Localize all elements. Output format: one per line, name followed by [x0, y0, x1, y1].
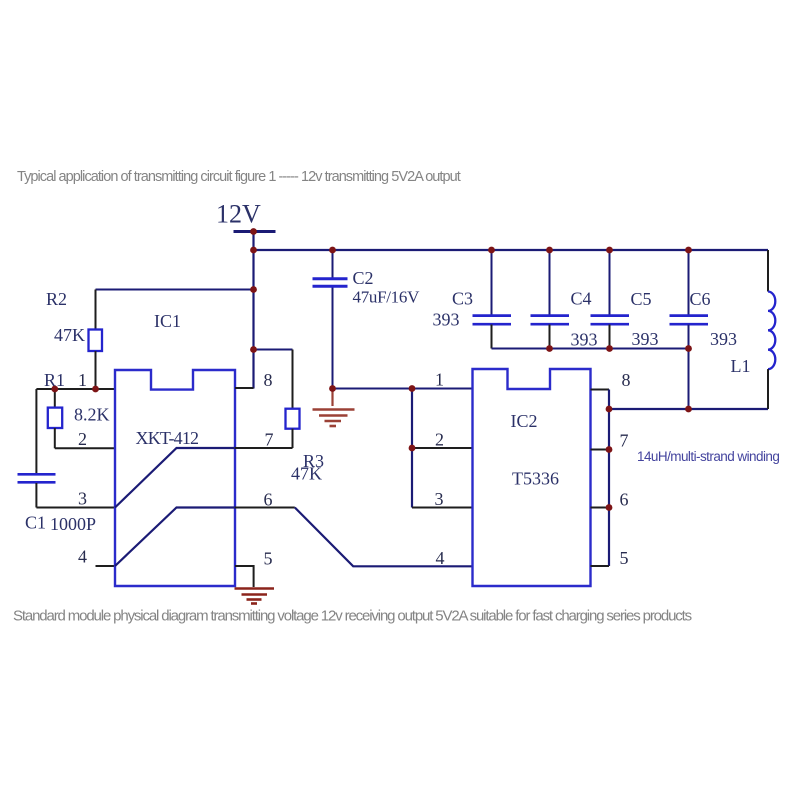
capacitor C1	[18, 473, 56, 476]
svg-text:1000P: 1000P	[50, 514, 96, 534]
wire L1 bottom	[609, 408, 768, 410]
svg-text:8.2K: 8.2K	[74, 405, 110, 425]
ground (IC1 pin5)	[235, 589, 275, 604]
wire IC2 pin7	[591, 449, 610, 451]
svg-text:393: 393	[710, 329, 737, 349]
wire R2 top lead	[95, 290, 97, 331]
node 12V bar	[250, 228, 257, 235]
node rail corner	[250, 247, 257, 254]
wire IC2 pin2	[412, 447, 473, 449]
wire L1 top lead	[767, 250, 769, 292]
node C5 bottom	[606, 345, 613, 352]
wire IC1 pin5	[235, 566, 254, 587]
wire R3 bottom lead	[292, 429, 294, 448]
wire diagonal pin6 IC1 to pin4 IC2	[295, 508, 473, 567]
node pin1 IC1	[92, 386, 99, 393]
svg-text:8: 8	[622, 370, 631, 390]
node C3 top	[488, 247, 495, 254]
wire R2 bottom lead	[95, 351, 97, 389]
wire IC1 pin6	[235, 507, 295, 509]
node C6 bottom	[685, 345, 692, 352]
svg-text:Standard module physical diagr: Standard module physical diagram transmi…	[13, 608, 692, 625]
capacitor C6 lead top	[688, 250, 690, 315]
node IC2 pin7	[606, 446, 613, 453]
wire IC2 pin5	[591, 565, 610, 567]
capacitor C3 lead top	[491, 250, 493, 315]
svg-text:1: 1	[435, 370, 444, 390]
svg-text:T5336: T5336	[512, 469, 559, 489]
wire IC2 pins123 vertical	[411, 389, 413, 508]
capacitor C4	[531, 314, 570, 317]
svg-text:C5: C5	[631, 289, 652, 309]
svg-text:Typical application of transmi: Typical application of transmitting circ…	[17, 169, 461, 185]
svg-text:3: 3	[435, 489, 444, 509]
svg-text:IC1: IC1	[154, 311, 181, 331]
wire IC1 pin8 jog to 12V	[235, 387, 254, 389]
node R3 branch	[250, 346, 257, 353]
node L1 bottom left	[606, 406, 613, 413]
wire IC2 right pins vertical	[608, 390, 610, 567]
wire IC2 pin8	[591, 389, 610, 391]
capacitor C6 lead bottom	[688, 325, 690, 410]
svg-text:1: 1	[78, 370, 87, 390]
svg-text:6: 6	[620, 490, 629, 510]
wire top power rail	[254, 249, 769, 251]
svg-text:8: 8	[264, 370, 273, 390]
svg-text:2: 2	[78, 429, 87, 449]
wire IC1 pin1	[36, 388, 115, 390]
wire IC1 pin4 stub	[96, 565, 116, 567]
wire left drop to C1	[35, 389, 37, 474]
resistor R3	[286, 409, 300, 429]
svg-text:L1: L1	[731, 356, 751, 376]
capacitor C5 lead top	[609, 250, 611, 315]
IC U2 (IC2 T5336) body	[473, 369, 591, 586]
node IC2 pin6	[606, 504, 613, 511]
node IC2 pin1	[409, 385, 416, 392]
svg-text:5: 5	[620, 548, 629, 568]
internal link pin3 to pin7	[115, 448, 235, 508]
wire L1 bottom lead	[767, 369, 769, 409]
wire C1 bottom lead	[35, 483, 37, 508]
capacitor C3	[473, 314, 512, 317]
capacitor C4 lead bottom	[549, 325, 551, 349]
svg-text:47uF/16V: 47uF/16V	[353, 288, 421, 307]
svg-text:393: 393	[632, 329, 659, 349]
node R2 branch	[250, 286, 257, 293]
capacitor C2	[313, 277, 348, 280]
node C6 bottom drop	[685, 406, 692, 413]
internal link pin4 to pin6	[115, 508, 235, 567]
svg-text:5: 5	[264, 549, 273, 569]
svg-text:C4: C4	[571, 289, 592, 309]
node C5 top	[606, 247, 613, 254]
svg-text:C1: C1	[25, 513, 46, 533]
node IC2 pin2	[409, 445, 416, 452]
node R1 top	[51, 386, 58, 393]
svg-text:7: 7	[620, 431, 629, 451]
wire gnd node to IC2 pin1	[333, 388, 473, 390]
svg-text:2: 2	[435, 430, 444, 450]
wire IC1 pin3	[36, 507, 115, 509]
svg-text:C3: C3	[452, 289, 473, 309]
svg-text:7: 7	[265, 430, 274, 450]
svg-text:47K: 47K	[54, 325, 85, 345]
wire R1 top lead	[54, 389, 56, 408]
capacitor C4 lead top	[549, 250, 551, 315]
resistor R1	[48, 408, 62, 428]
wire branch to R3 horizontal	[254, 349, 293, 351]
wire IC1 pin7	[235, 447, 293, 449]
node C4 bottom	[546, 345, 553, 352]
IC U1 (IC1 XKT-412) body	[115, 370, 235, 586]
node C6 top	[685, 247, 692, 254]
svg-text:C6: C6	[690, 289, 711, 309]
svg-text:R2: R2	[46, 289, 67, 309]
svg-text:4: 4	[78, 547, 87, 567]
svg-text:393: 393	[571, 330, 598, 350]
capacitor C5 lead bottom	[609, 325, 611, 349]
node C2 top	[329, 247, 336, 254]
resistor R2	[89, 330, 103, 352]
12V supply bar	[234, 230, 276, 233]
capacitor C2 leads	[332, 250, 334, 279]
capacitor C3 lead bottom	[491, 325, 493, 349]
wire R2 branch horizontal	[96, 289, 254, 291]
wire IC2 pin6	[591, 507, 610, 509]
svg-text:47K: 47K	[291, 464, 322, 484]
svg-text:14uH/multi-strand winding: 14uH/multi-strand winding	[637, 449, 779, 464]
wire capacitor bottom bus	[492, 348, 689, 350]
node C4 top	[546, 247, 553, 254]
wire 12V vertical	[252, 232, 254, 389]
wire R1 bottom lead	[54, 428, 56, 448]
capacitor C5	[591, 314, 630, 317]
svg-text:4: 4	[436, 548, 445, 568]
node C2 ground	[329, 385, 336, 392]
wire IC1 pin2	[55, 447, 115, 449]
svg-text:C2: C2	[353, 268, 374, 288]
capacitor C6	[670, 314, 709, 317]
svg-text:XKT-412: XKT-412	[136, 428, 199, 448]
svg-text:IC2: IC2	[511, 411, 538, 431]
inductor L1	[768, 292, 775, 370]
wire IC2 pin3	[412, 507, 473, 509]
svg-text:393: 393	[433, 310, 460, 330]
ground (C2)	[313, 389, 355, 427]
svg-text:3: 3	[78, 489, 87, 509]
wire R3 top lead	[292, 350, 294, 410]
svg-text:12V: 12V	[216, 200, 261, 229]
